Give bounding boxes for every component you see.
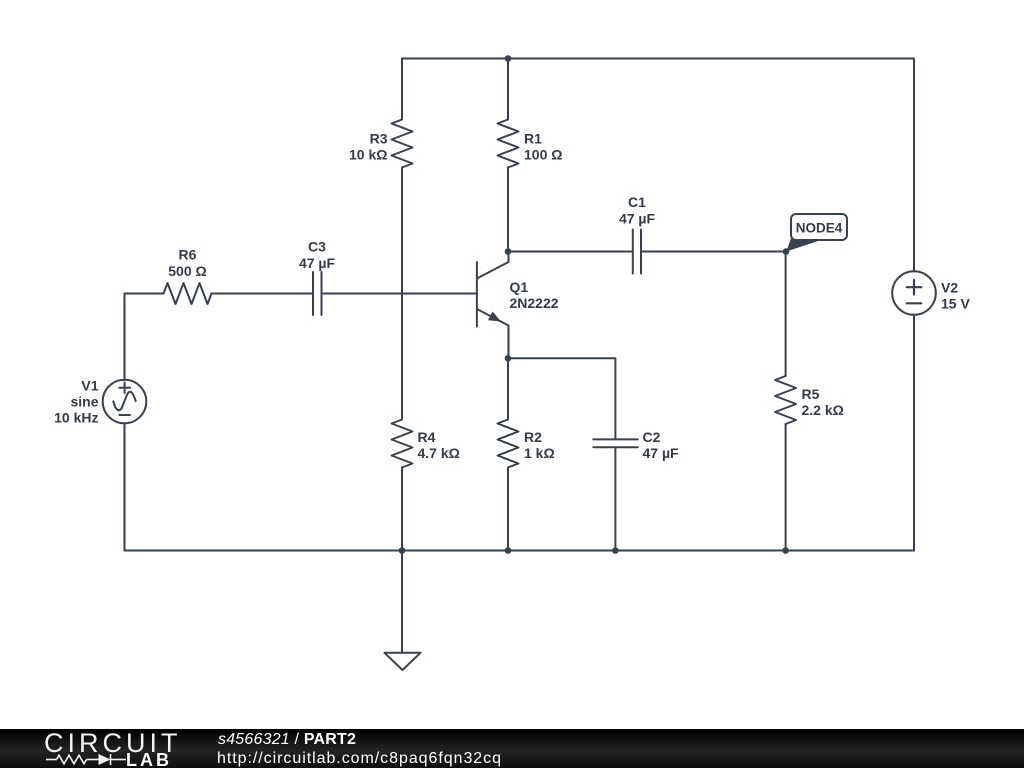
svg-text:4.7 kΩ: 4.7 kΩ — [418, 445, 460, 461]
svg-text:1 kΩ: 1 kΩ — [524, 445, 555, 461]
svg-text:R5: R5 — [802, 386, 820, 402]
svg-text:C3: C3 — [308, 239, 326, 255]
svg-text:10 kΩ: 10 kΩ — [349, 147, 387, 163]
svg-text:47 µF: 47 µF — [619, 211, 656, 227]
svg-text:C2: C2 — [643, 429, 661, 445]
svg-text:NODE4: NODE4 — [796, 221, 843, 236]
svg-text:V2: V2 — [941, 280, 958, 296]
svg-text:47 µF: 47 µF — [299, 255, 336, 271]
svg-text:R3: R3 — [370, 131, 388, 147]
svg-text:C1: C1 — [628, 194, 646, 210]
svg-text:2.2 kΩ: 2.2 kΩ — [802, 402, 844, 418]
svg-text:R4: R4 — [418, 429, 436, 445]
svg-text:500 Ω: 500 Ω — [168, 263, 206, 279]
svg-text:100 Ω: 100 Ω — [524, 147, 562, 163]
svg-text:2N2222: 2N2222 — [510, 295, 559, 311]
svg-text:15 V: 15 V — [941, 296, 970, 312]
svg-text:47 µF: 47 µF — [643, 445, 680, 461]
svg-text:10 kHz: 10 kHz — [54, 410, 98, 426]
svg-text:Q1: Q1 — [510, 279, 529, 295]
svg-text:sine: sine — [70, 394, 98, 410]
svg-text:R1: R1 — [524, 131, 542, 147]
svg-text:R6: R6 — [179, 247, 197, 263]
svg-text:V1: V1 — [81, 378, 98, 394]
svg-text:R2: R2 — [524, 429, 542, 445]
